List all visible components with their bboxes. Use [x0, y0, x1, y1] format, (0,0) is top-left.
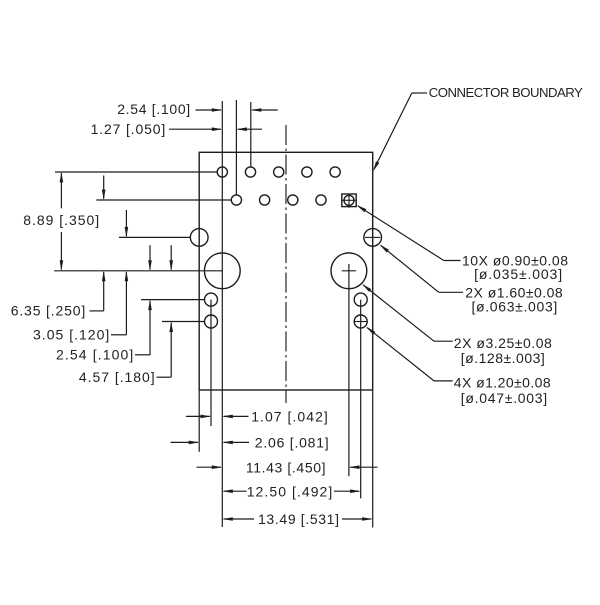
- svg-text:2.54 [.100]: 2.54 [.100]: [56, 347, 133, 363]
- hole B3 (0.90 dia, second row): [288, 195, 298, 205]
- extension line, left small hole column (x=211): [210, 300, 212, 426]
- dimension 2.54 [.100] left vertical, with arrows and elbow leader: [135, 245, 152, 355]
- svg-text:4X ø1.20±0.08: 4X ø1.20±0.08: [454, 375, 551, 391]
- extension line, hole column A (x=222.3) full height: [221, 101, 223, 527]
- hole A1 (0.90 dia, top row): [217, 167, 227, 177]
- svg-text:8.89 [.350]: 8.89 [.350]: [23, 212, 99, 228]
- hole A3 (0.90 dia, top row): [274, 167, 284, 177]
- extension line, hole column C (x=250.8): [250, 102, 252, 167]
- svg-text:[ø.047±.003]: [ø.047±.003]: [461, 390, 547, 406]
- leader line, small hole row 1 (y=299.6): [141, 299, 205, 301]
- svg-text:13.49 [.531]: 13.49 [.531]: [258, 511, 339, 527]
- extension line, right small hole column (x=360.7): [360, 300, 362, 499]
- hole C1 (1.60 dia, on left edge): [190, 229, 208, 247]
- vertical centerline (dash-dot): [285, 125, 287, 403]
- dimension 2.06 [.081] bottom, with arrows: [171, 441, 250, 445]
- svg-text:2.06 [.081]: 2.06 [.081]: [255, 435, 329, 451]
- dimension 2.54 [.100] top, with arrows: [196, 108, 278, 112]
- svg-text:11.43 [.450]: 11.43 [.450]: [246, 459, 326, 475]
- hole A4 (0.90 dia, top row): [302, 167, 312, 177]
- dimension 1.27 [.050] top, with arrows: [169, 127, 262, 131]
- dimension 6.35 [.250] vertical, with arrows and elbow leader: [90, 176, 106, 311]
- dimension 12.50 [.492] bottom, with arrows: [222, 489, 360, 493]
- svg-text:2.54 [.100]: 2.54 [.100]: [117, 101, 190, 117]
- pin 1 indicator: boxed pad B5 (0.90 dia with square and crosshair): [342, 194, 356, 208]
- svg-text:[ø.063±.003]: [ø.063±.003]: [472, 298, 558, 314]
- hole E2 (1.20 dia, left lower): [205, 315, 218, 328]
- leader, CONNECTOR BOUNDARY callout with arrow: [373, 93, 427, 172]
- hole B1 (0.90 dia, second row): [231, 195, 241, 205]
- leader, 10X 0.90 callout with arrow to pin 1 pad: [357, 205, 461, 261]
- extension line, right big hole column (x=348.9) incl crosshair tick: [348, 264, 350, 476]
- dimension 4.57 [.180] vertical, with arrows and elbow leader: [157, 245, 174, 377]
- leader line, second hole row (y=200): [96, 199, 231, 201]
- svg-text:6.35 [.250]: 6.35 [.250]: [11, 302, 86, 318]
- leader line, top hole row (y=172): [55, 171, 217, 173]
- hole B4 (0.90 dia, second row): [316, 195, 326, 205]
- leader line, edge hole row (y=237.4): [119, 236, 190, 238]
- leader line, big hole row (y=270.8): [54, 270, 222, 272]
- dimension 1.07 [.042] bottom, with arrows: [186, 415, 249, 419]
- hole C2 (1.60 dia, on right edge, with crosshair): [364, 229, 382, 247]
- hole E4 (1.20 dia, right lower, with crosshair): [354, 315, 368, 328]
- hole A5 (0.90 dia, top row): [330, 167, 340, 177]
- extension line, left edge below outline: [198, 390, 200, 452]
- svg-text:2X ø3.25±0.08: 2X ø3.25±0.08: [454, 335, 552, 351]
- dimension 13.49 [.531] bottom, with arrows: [222, 517, 372, 521]
- dimension 11.43 [.450] bottom, with arrows: [197, 465, 378, 469]
- svg-text:4.57 [.180]: 4.57 [.180]: [79, 369, 155, 385]
- hole B2 (0.90 dia, second row): [260, 195, 270, 205]
- hole A2 (0.90 dia, top row): [245, 167, 255, 177]
- dimension 8.89 [.350] vertical, with arrows: [60, 172, 64, 271]
- leader, 4X 1.20 callout with arrow to hole E4: [366, 327, 453, 381]
- leader, 2X 3.25 callout with arrow to hole D2: [362, 284, 453, 341]
- extension line, hole column B (x=236.4): [235, 100, 237, 195]
- hole D2 (3.25 dia, right, with crosshair): [331, 253, 367, 289]
- hole E1 (1.20 dia, left upper): [205, 293, 218, 306]
- svg-text:CONNECTOR BOUNDARY: CONNECTOR BOUNDARY: [429, 85, 583, 100]
- svg-text:12.50 [.492]: 12.50 [.492]: [247, 483, 333, 499]
- leader line, small hole row 2 (y=321.5): [162, 321, 204, 323]
- svg-text:[ø.128±.003]: [ø.128±.003]: [461, 350, 545, 366]
- leader, 2X 1.60 callout with arrow to hole C2: [380, 245, 463, 293]
- connector boundary outline rectangle: [199, 152, 373, 390]
- dimension 3.05 [.120] vertical, with arrows and elbow leader: [111, 210, 128, 335]
- svg-text:3.05 [.120]: 3.05 [.120]: [33, 327, 109, 343]
- hole D1 (3.25 dia, left): [204, 253, 240, 289]
- extension line, right edge below outline: [372, 390, 374, 528]
- svg-text:1.27 [.050]: 1.27 [.050]: [91, 121, 166, 137]
- svg-text:1.07 [.042]: 1.07 [.042]: [251, 409, 328, 425]
- hole E3 (1.20 dia, right upper): [354, 293, 367, 306]
- svg-text:[ø.035±.003]: [ø.035±.003]: [474, 266, 562, 282]
